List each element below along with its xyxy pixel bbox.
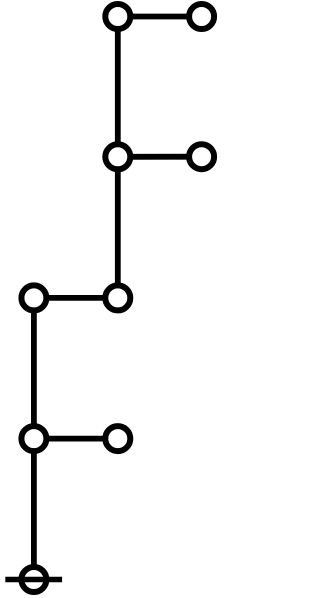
wire G-H [34, 436, 118, 442]
node F [21, 285, 46, 310]
wire C-D [118, 154, 202, 160]
node G [21, 426, 46, 451]
wire F-E [34, 295, 118, 301]
wire A-B [118, 14, 202, 20]
wire C-E [115, 157, 121, 298]
node C [105, 144, 130, 169]
node B [189, 4, 214, 29]
node A [105, 4, 130, 29]
node E [105, 285, 130, 310]
wire A-C [115, 17, 121, 157]
ground [5, 567, 62, 592]
node H [105, 426, 130, 451]
wire G-I [31, 439, 37, 580]
wire F-G [31, 298, 37, 439]
node D [189, 144, 214, 169]
